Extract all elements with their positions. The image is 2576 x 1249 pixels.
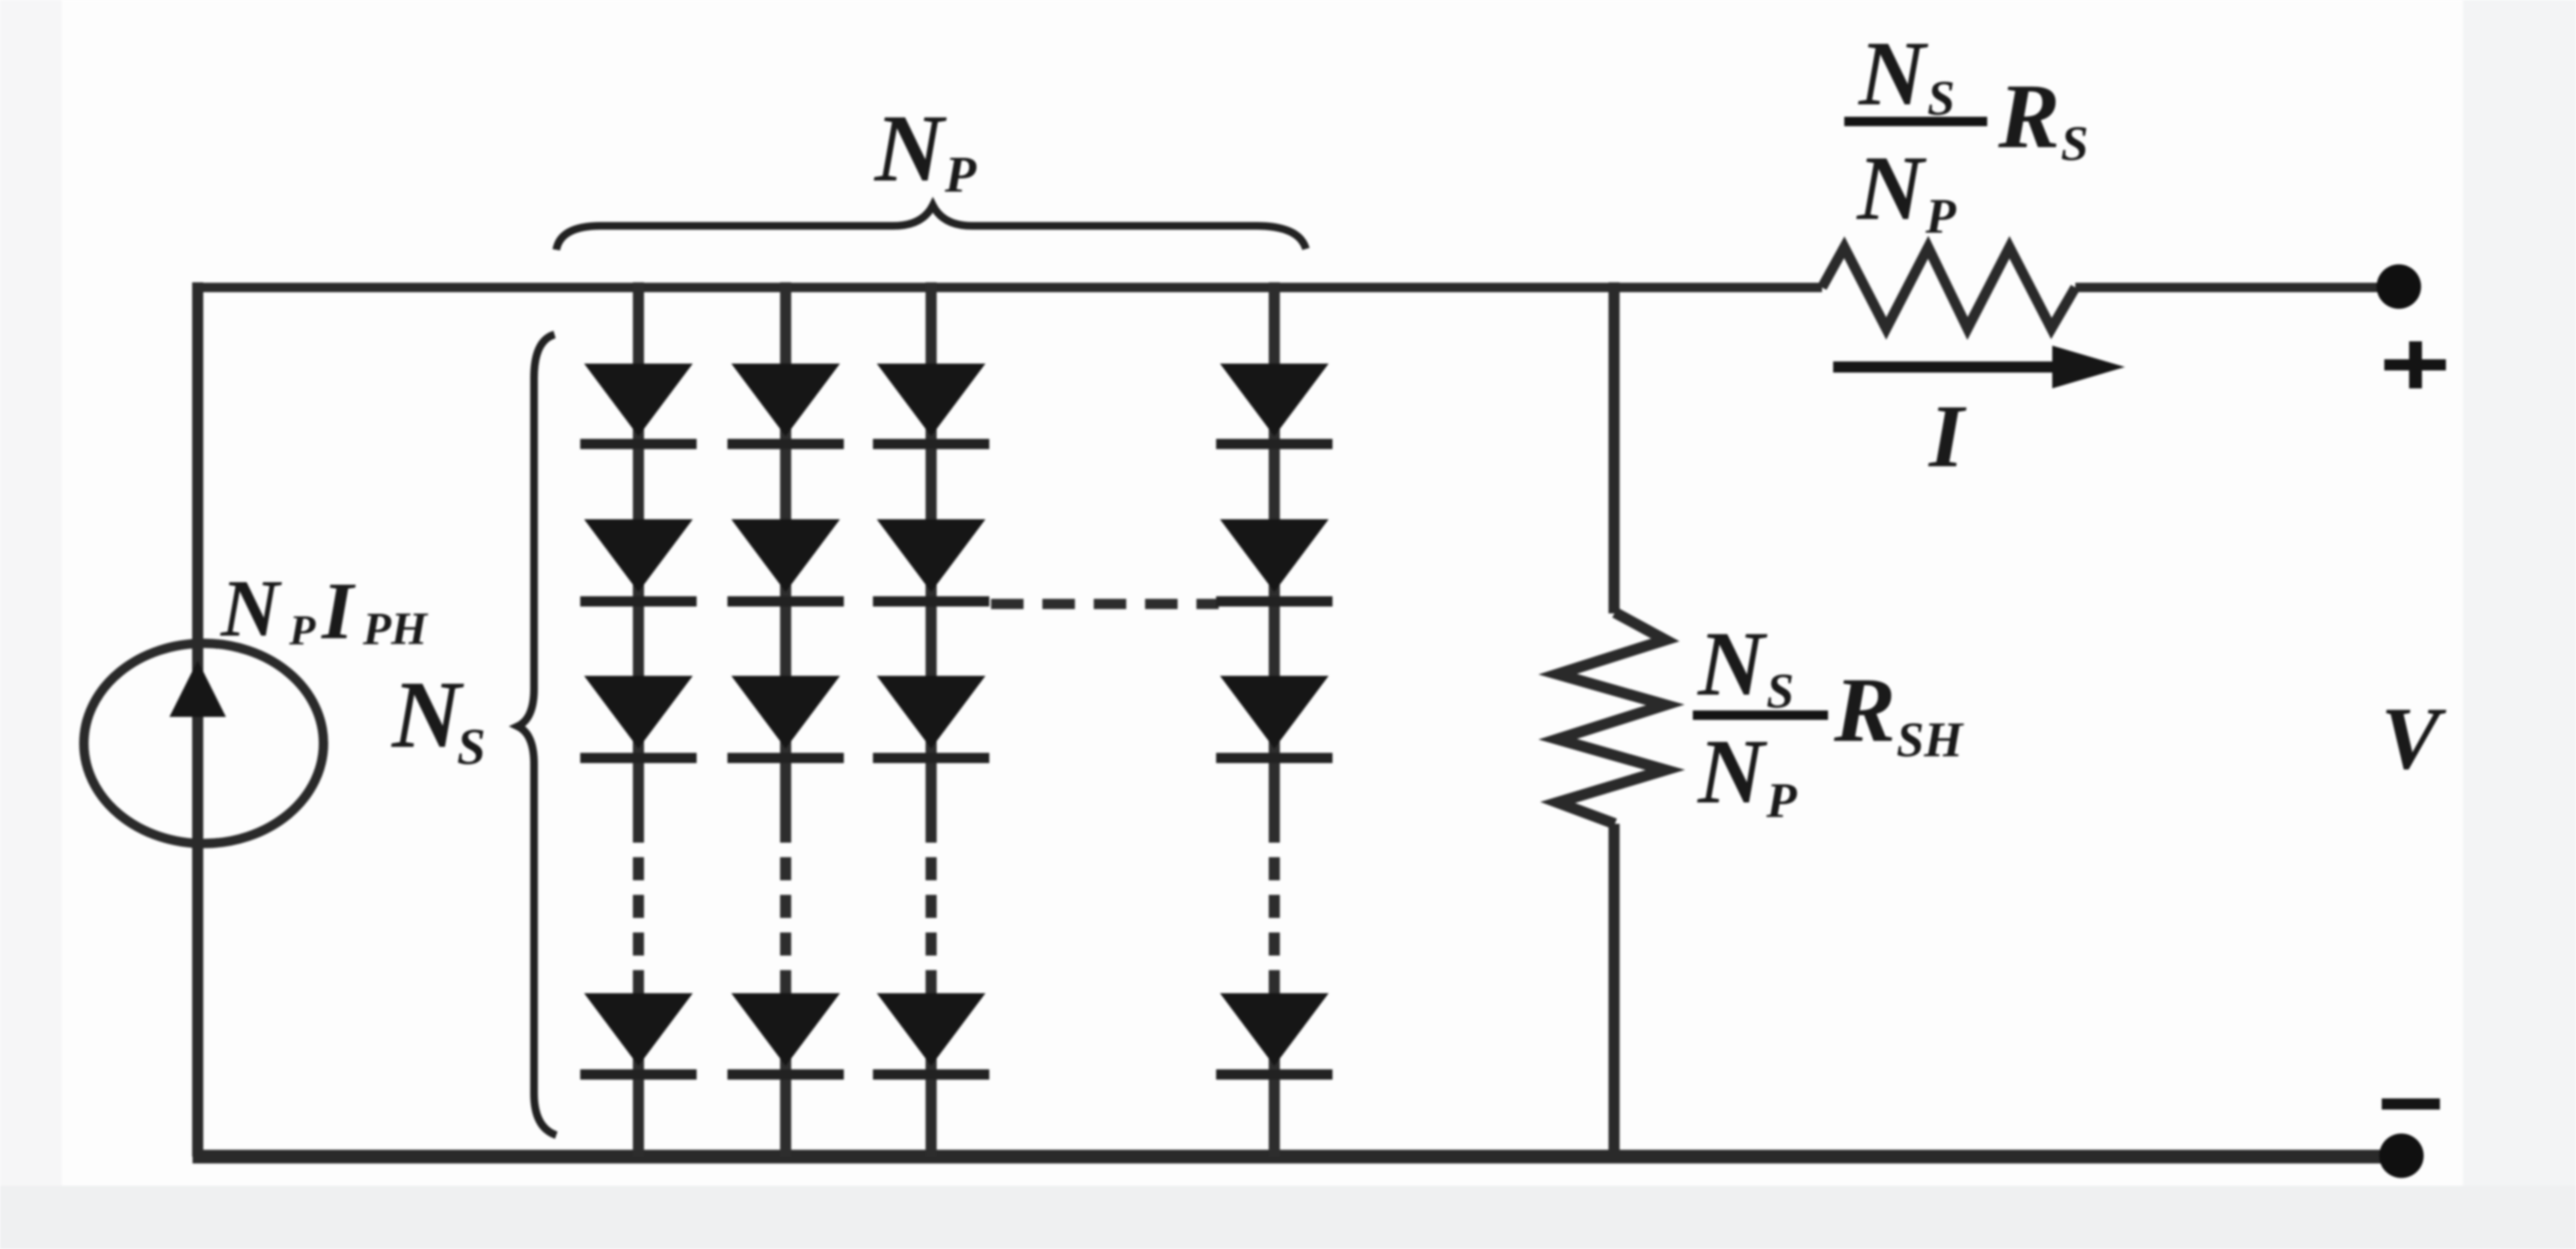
svg-text:I: I: [321, 565, 356, 656]
svg-text:SH: SH: [1896, 712, 1964, 767]
svg-text:N: N: [390, 662, 465, 768]
svg-text:PH: PH: [362, 603, 429, 654]
svg-text:N: N: [1697, 613, 1768, 715]
svg-text:R: R: [1997, 66, 2060, 168]
svg-text:P: P: [944, 146, 977, 203]
svg-text:N: N: [1856, 138, 1927, 240]
svg-text:P: P: [1925, 188, 1956, 244]
svg-text:N: N: [1697, 721, 1768, 823]
svg-text:P: P: [288, 606, 316, 654]
svg-text:R: R: [1833, 660, 1896, 761]
svg-text:S: S: [2061, 115, 2088, 171]
svg-text:V: V: [2381, 690, 2447, 788]
svg-text:I: I: [1927, 386, 1967, 486]
svg-text:P: P: [1766, 772, 1797, 828]
svg-text:N: N: [873, 96, 947, 202]
svg-text:N: N: [1858, 23, 1929, 125]
svg-text:N: N: [220, 563, 282, 654]
svg-text:S: S: [1766, 663, 1794, 719]
svg-text:S: S: [457, 719, 485, 775]
